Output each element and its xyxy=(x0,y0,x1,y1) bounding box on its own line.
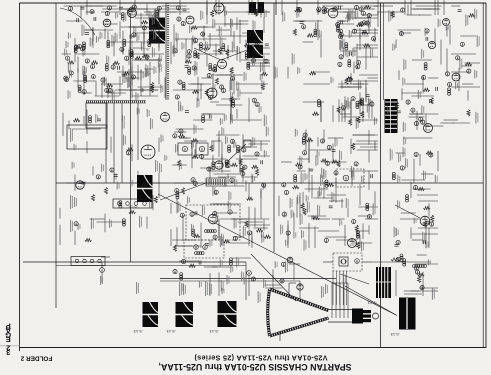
svg-text:3: 3 xyxy=(6,348,10,357)
wire vert bus x166 shield xyxy=(165,3,167,100)
wire mid horizontal bus xyxy=(56,182,483,184)
extra density video top xyxy=(173,20,268,122)
speaker photo 1 xyxy=(143,302,159,327)
line resistor xyxy=(391,258,400,261)
page label PAGE 23 xyxy=(5,321,11,357)
wire bottom mid v xyxy=(248,276,250,296)
yoke photo bottom xyxy=(218,301,237,327)
caption left of speaker photo 1 xyxy=(136,282,139,294)
svg-text:-5-13: -5-13 xyxy=(209,329,219,334)
tube V4 xyxy=(103,19,111,27)
wire tuner v3 xyxy=(121,103,123,183)
vert osc dashed box xyxy=(186,205,240,240)
ac line xyxy=(323,261,333,263)
wire section divider xyxy=(380,3,382,348)
terminal strip bottom-left xyxy=(71,257,105,266)
svg-text:FOLDER 2: FOLDER 2 xyxy=(20,355,52,362)
svg-text:-5-13: -5-13 xyxy=(133,329,143,334)
circuit area bottom right xyxy=(396,254,438,300)
wire yoke bus d xyxy=(160,280,300,282)
circuit area audio right xyxy=(392,9,480,132)
noise gate pot xyxy=(343,175,349,181)
caption above yoke photo xyxy=(205,281,208,296)
circuit area sync left sparse xyxy=(288,10,330,122)
diag wire to vert xfmr xyxy=(160,183,206,200)
svg-text:SPARTAN CHASSIS U25-01AA thru: SPARTAN CHASSIS U25-01AA thru U25-11AA, xyxy=(159,362,352,372)
border bottom xyxy=(20,347,487,349)
tube V13 xyxy=(297,284,303,290)
pointer arrows video det xyxy=(194,48,221,60)
svg-text:-5-13: -5-13 xyxy=(390,332,400,337)
wire yoke bus b xyxy=(56,265,246,267)
tuner box xyxy=(86,103,107,128)
terminal strip lead xyxy=(101,256,110,258)
wire vert x300 down xyxy=(299,281,301,300)
tube V15 xyxy=(287,257,293,263)
tube V3 xyxy=(128,9,137,18)
filter line h xyxy=(372,261,430,263)
tp lead xyxy=(101,273,103,283)
line coil xyxy=(413,265,427,268)
socket wires vertical xyxy=(332,271,334,305)
power transformer photo xyxy=(399,298,416,330)
wire B+ bus left xyxy=(55,3,57,308)
big tube V14 horiz osc xyxy=(141,145,155,159)
tuner shield hatched bar xyxy=(86,101,146,104)
circuit area sync right xyxy=(333,6,378,129)
wire shield hatch vert xyxy=(167,3,169,100)
small black rects top xyxy=(249,2,264,13)
label smudges bottom band xyxy=(222,261,346,303)
tube V14 xyxy=(186,16,194,24)
pointer line from dashed box xyxy=(340,274,369,284)
tube V18 xyxy=(428,41,435,48)
extra density sync right xyxy=(337,12,378,123)
vert osc refnum xyxy=(228,210,232,214)
pointer from box xyxy=(228,144,246,161)
tube V5 xyxy=(328,8,338,18)
wire tuner v4 xyxy=(137,103,139,160)
pointer line left pair xyxy=(60,120,160,177)
circuit area video mid-top xyxy=(171,5,270,126)
svg-text:-5-13: -5-13 xyxy=(166,329,176,334)
vert osc coil xyxy=(205,230,217,233)
vert output transformer striped xyxy=(376,267,391,298)
wire tuner v2 xyxy=(113,103,115,183)
circuit area vert mid xyxy=(171,129,271,251)
interlock refnum xyxy=(355,259,360,264)
circuit strip along top border xyxy=(68,0,477,22)
vert linearity pot box 1 xyxy=(178,143,192,155)
border top xyxy=(20,2,487,4)
speaker photo 2 xyxy=(176,302,194,327)
tube V8 xyxy=(76,181,84,189)
left mid text col xyxy=(70,195,73,209)
circuit area bottom mid xyxy=(173,257,300,296)
tube V11 xyxy=(452,73,460,81)
circuit area IF strip top-left xyxy=(62,4,165,98)
focus control contents xyxy=(194,245,199,250)
height pot box 2 xyxy=(196,143,208,155)
vert osc tube xyxy=(208,214,218,224)
extra density IF strip xyxy=(68,18,162,102)
extra density horiz right xyxy=(281,135,378,246)
tube V1 xyxy=(207,88,217,98)
border left xyxy=(19,3,21,351)
caption above speaker photo 2 xyxy=(179,282,182,296)
svg-text:V25-01AA thru V25-11AA (25 Ser: V25-01AA thru V25-11AA (25 Series) xyxy=(194,354,328,363)
CRT bottom lead arrow xyxy=(279,332,281,341)
CRT picture tube V18 21YP4 xyxy=(268,283,379,336)
circuit area horiz mid-right xyxy=(279,129,378,250)
CRT label text xyxy=(321,286,324,298)
svg-text:E: E xyxy=(6,335,11,344)
focus coil photo mid-left xyxy=(137,175,153,202)
tube V17 xyxy=(348,239,357,248)
extra density IF strip 2 xyxy=(64,31,158,101)
refnum bottom mid xyxy=(247,271,252,276)
deflection yoke photo upper xyxy=(247,30,263,58)
dashed box interlock xyxy=(333,253,362,271)
tube V16 xyxy=(215,161,223,169)
extra density vert mid xyxy=(176,129,268,247)
circuit area power right xyxy=(392,138,438,248)
tube V10 xyxy=(161,113,170,122)
pointer diag right xyxy=(395,205,420,218)
fold line bottom-left xyxy=(0,345,20,347)
tube V7 xyxy=(420,216,430,226)
boxed arrow label xyxy=(244,140,251,147)
antenna lead curve xyxy=(60,8,95,35)
wire yoke bus c xyxy=(160,278,336,280)
osc tube area text xyxy=(155,160,158,172)
noise gate dashed box xyxy=(336,169,364,187)
label smudges main band xyxy=(68,9,376,251)
CRT anode lead xyxy=(288,283,290,296)
dashed box focus control xyxy=(184,240,224,258)
tuner coil xyxy=(89,116,92,123)
pointer line to power transformer xyxy=(345,286,397,316)
antenna terminal strip xyxy=(113,199,152,208)
tube V2 xyxy=(214,3,224,13)
border right inner xyxy=(482,3,484,348)
pointer line to focus photo xyxy=(158,194,396,315)
wire vert bus x274 xyxy=(273,3,275,252)
wire vert x246 down xyxy=(245,262,247,300)
flyback transformer photo T-upper-left xyxy=(149,18,165,44)
tube V6 xyxy=(424,124,433,133)
box label AGC xyxy=(70,128,73,142)
wire yoke bus a xyxy=(23,261,246,263)
pointer line to yoke photo xyxy=(251,254,296,301)
tube V9 xyxy=(218,60,227,69)
vert output transformer symbol hatched xyxy=(206,178,226,186)
circuit area tuner left mid xyxy=(60,108,160,245)
interlock plug xyxy=(339,257,348,266)
tube V12 xyxy=(443,19,450,26)
circled test point xyxy=(100,268,105,273)
IF transformer black x385 xyxy=(385,99,398,133)
wire divider2 xyxy=(383,3,385,100)
wire tuner v1 xyxy=(105,103,107,183)
wire vert bus x130 xyxy=(130,14,132,262)
tuner caps xyxy=(97,119,101,121)
AGC box xyxy=(67,125,107,149)
label smudges right band xyxy=(387,28,438,209)
border right outer xyxy=(485,3,487,348)
